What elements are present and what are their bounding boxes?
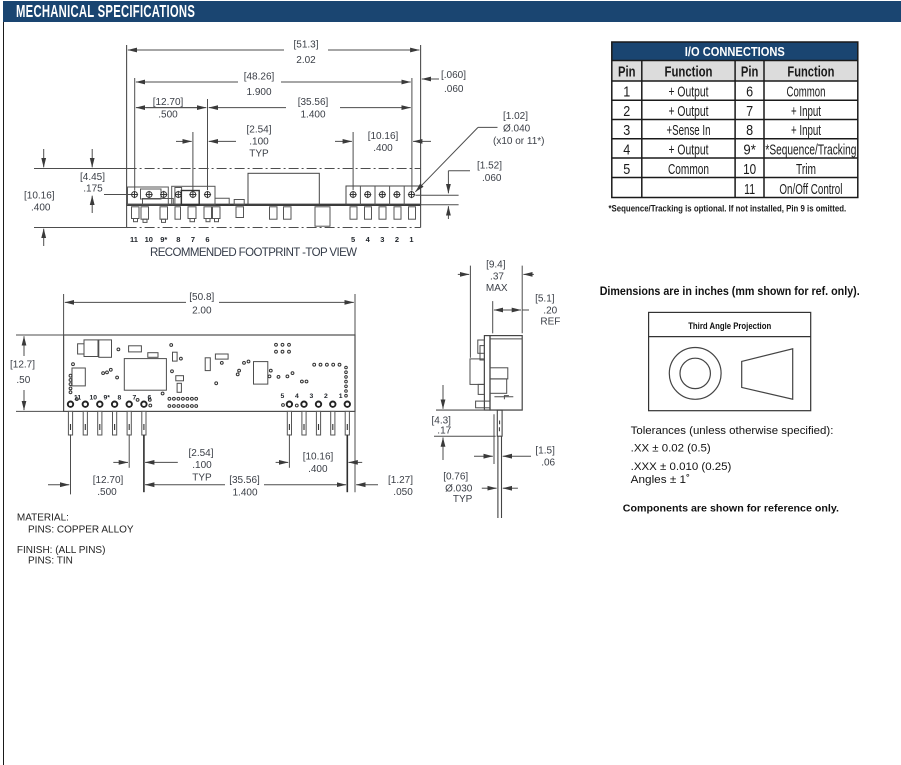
- svg-text:[1.5]: [1.5]: [535, 446, 555, 457]
- svg-text:Pin: Pin: [741, 65, 759, 81]
- svg-text:3: 3: [623, 122, 630, 139]
- table header text: [618, 65, 834, 81]
- svg-text:6: 6: [746, 84, 753, 101]
- svg-text:11: 11: [744, 181, 755, 198]
- connector box D (pins 8-7-6): [172, 186, 215, 205]
- svg-text:FINISH: (ALL PINS): FINISH: (ALL PINS): [17, 545, 106, 556]
- svg-text:On/Off Control: On/Off Control: [779, 181, 842, 198]
- pin number labels top view: [130, 235, 414, 244]
- svg-text:Tolerances (unless otherwise s: Tolerances (unless otherwise specified):: [631, 425, 834, 437]
- svg-text:+ Output: + Output: [669, 103, 710, 120]
- terminal block (pins 5-1): [346, 186, 421, 205]
- svg-text:Angles ± 1˚: Angles ± 1˚: [631, 474, 690, 486]
- lid line: [490, 338, 522, 340]
- svg-text:.500: .500: [97, 487, 117, 498]
- svg-text:[1.27]: [1.27]: [388, 475, 413, 486]
- svg-text:2: 2: [324, 393, 328, 400]
- components on pcb: [72, 340, 268, 392]
- svg-text:7: 7: [191, 235, 195, 244]
- dim [2.54] .100 TYP: [176, 125, 272, 160]
- svg-text:Third Angle Projection: Third Angle Projection: [688, 321, 771, 332]
- dim [10.16] .400 (side): [276, 461, 289, 463]
- svg-text:[2.54]: [2.54]: [188, 448, 213, 459]
- dim [1.5] .06: [493, 414, 495, 464]
- connector box A (pins 11-10-9): [128, 187, 169, 205]
- dim [10.16] .400 (top right): [335, 131, 431, 154]
- svg-text:.37: .37: [490, 272, 504, 283]
- transformer rect center: [248, 173, 319, 205]
- dim [1.27] .050 (side): [356, 484, 378, 486]
- dim [48.26] 1.900: [136, 72, 411, 99]
- terminal divider 1: [359, 186, 361, 205]
- table cells: [623, 84, 856, 198]
- svg-text:REF: REF: [540, 317, 560, 328]
- svg-text:MAX: MAX: [486, 283, 508, 294]
- pin row leader left: [104, 194, 131, 196]
- svg-text:.50: .50: [16, 375, 30, 386]
- svg-text:[10.16]: [10.16]: [368, 131, 399, 142]
- svg-text:MATERIAL:: MATERIAL:: [17, 512, 69, 523]
- svg-text:4: 4: [366, 235, 371, 244]
- svg-text:.060: .060: [482, 173, 502, 184]
- svg-text:+ Input: + Input: [791, 122, 822, 139]
- dim [12.70] .500: [136, 97, 206, 121]
- svg-text:11: 11: [74, 395, 81, 402]
- svg-text:Pin: Pin: [618, 65, 636, 81]
- dot grid center bottom: [168, 397, 171, 400]
- svg-text:4: 4: [623, 141, 630, 158]
- svg-text:+ Input: + Input: [791, 103, 822, 120]
- header bar: [3, 1, 901, 22]
- svg-text:2: 2: [623, 103, 630, 120]
- svg-text:5: 5: [281, 393, 285, 400]
- svg-text:Dimensions are in inches (mm s: Dimensions are in inches (mm shown for r…: [600, 284, 860, 298]
- small tab: [234, 200, 244, 205]
- module outline top edge (dash-dot): [127, 168, 421, 170]
- pcb strip: [484, 336, 490, 410]
- svg-text:.500: .500: [158, 110, 178, 121]
- svg-text:.400: .400: [308, 464, 328, 475]
- svg-text:[35.56]: [35.56]: [229, 475, 260, 486]
- dim [35.56] 1.400: [209, 97, 411, 121]
- left page border: [3, 22, 4, 765]
- svg-text:.06: .06: [541, 458, 555, 469]
- pin row ext right: [416, 194, 459, 196]
- seating plane line: [436, 409, 523, 411]
- svg-text:3: 3: [310, 393, 314, 400]
- svg-text:*Sequence/Tracking is optional: *Sequence/Tracking is optional. If not i…: [609, 204, 847, 214]
- dim [9.4] .37 MAX: [458, 273, 469, 275]
- svg-text:2.00: 2.00: [192, 306, 212, 317]
- ext pin7: [192, 132, 194, 190]
- svg-text:+Sense In: +Sense In: [667, 122, 711, 139]
- dot grid upper: [275, 343, 278, 346]
- ext left dims top line: [34, 168, 127, 170]
- svg-text:[50.8]: [50.8]: [189, 292, 214, 303]
- svg-text:1.400: 1.400: [300, 110, 325, 121]
- side view pin pads (through-hole): [68, 402, 350, 407]
- svg-text:5: 5: [623, 161, 630, 178]
- table title bar: [612, 42, 858, 61]
- ext lines 9.4: [470, 266, 522, 358]
- ext pin6: [207, 99, 209, 190]
- ext lines 50.8: [64, 294, 355, 335]
- table header bg: [612, 61, 858, 82]
- third angle projection box: [649, 312, 811, 410]
- dim [2.54] .100 TYP (side): [113, 461, 128, 463]
- dim [5.1] .20 REF: [492, 301, 494, 333]
- svg-text:TYP: TYP: [249, 149, 269, 160]
- svg-text:(x10 or 11*): (x10 or 11*): [493, 136, 545, 147]
- svg-text:10: 10: [743, 161, 756, 178]
- svg-text:8: 8: [118, 395, 122, 402]
- dim [51.3] 2.02: [128, 40, 420, 67]
- small vias/dots: [69, 343, 347, 407]
- dim [1.52] .060: [448, 161, 502, 220]
- svg-text:[12.70]: [12.70]: [153, 97, 184, 108]
- projection circles: [669, 348, 721, 400]
- svg-text:Ø.030: Ø.030: [445, 483, 473, 494]
- svg-text:7: 7: [133, 395, 137, 402]
- svg-text:+ Output: + Output: [669, 141, 710, 158]
- left side components: [470, 340, 490, 408]
- dim [35.56] 1.400 (side): [145, 484, 158, 486]
- round pin section: [498, 436, 502, 518]
- dots near pins: [136, 399, 139, 402]
- svg-text:Trim: Trim: [796, 161, 816, 178]
- table grid: [612, 42, 858, 198]
- solder pads below pcb line: [132, 207, 416, 226]
- svg-text:.060: .060: [444, 84, 464, 95]
- svg-text:[48.26]: [48.26]: [244, 72, 275, 83]
- svg-text:[0.76]: [0.76]: [443, 472, 468, 483]
- module outline left edge: [126, 45, 128, 228]
- svg-text:[.060]: [.060]: [441, 70, 466, 81]
- svg-text:[10.16]: [10.16]: [303, 452, 334, 463]
- svg-text:2.02: 2.02: [296, 55, 316, 66]
- svg-text:[5.1]: [5.1]: [535, 294, 555, 305]
- dim [0.76] dia .030 TYP: [482, 487, 497, 489]
- svg-text:[4.45]: [4.45]: [80, 172, 105, 183]
- terminal divider 2: [374, 186, 376, 205]
- svg-text:10: 10: [145, 235, 153, 244]
- svg-text:7: 7: [746, 103, 753, 120]
- end view body: [490, 336, 522, 410]
- pin legs: [68, 411, 349, 435]
- svg-text:3: 3: [380, 235, 384, 244]
- svg-text:Components are shown for refer: Components are shown for reference only.: [623, 502, 839, 514]
- svg-text:9*: 9*: [104, 395, 111, 402]
- terminal divider 3: [389, 186, 391, 205]
- svg-text:[35.56]: [35.56]: [298, 97, 329, 108]
- extension lines: [34, 78, 459, 228]
- svg-text:1.400: 1.400: [232, 488, 257, 499]
- svg-text:.XX ± 0.02 (0.5): .XX ± 0.02 (0.5): [631, 443, 711, 455]
- svg-text:6: 6: [205, 235, 209, 244]
- connector box E (pin 7): [181, 191, 199, 205]
- dim [4.3] .17: [434, 435, 496, 437]
- svg-text:1: 1: [409, 235, 413, 244]
- dim [12.7] .50: [16, 335, 64, 411]
- projection cone: [742, 349, 793, 399]
- dim [4.45] .175: [80, 149, 105, 213]
- svg-text:Function: Function: [665, 65, 713, 81]
- left dot column: [69, 374, 72, 377]
- svg-text:4: 4: [295, 393, 299, 400]
- svg-text:1: 1: [623, 84, 630, 101]
- svg-text:I/O CONNECTIONS: I/O CONNECTIONS: [685, 45, 785, 59]
- connector box C lower: [143, 199, 174, 205]
- svg-text:5: 5: [351, 235, 355, 244]
- module outline right edge: [420, 45, 422, 228]
- svg-text:[1.02]: [1.02]: [503, 111, 528, 122]
- module outline bottom edge (dash-dot): [127, 227, 421, 229]
- svg-text:[2.54]: [2.54]: [246, 125, 271, 136]
- svg-text:1.900: 1.900: [246, 87, 271, 98]
- svg-text:PINS: TIN: PINS: TIN: [28, 555, 73, 566]
- svg-text:PINS: COPPER ALLOY: PINS: COPPER ALLOY: [28, 524, 134, 535]
- lower extension lines: [71, 434, 130, 494]
- pcb edge ext right: [421, 204, 459, 206]
- connector box pin8: [175, 188, 182, 205]
- ext pin11: [134, 78, 136, 191]
- svg-text:.400: .400: [31, 203, 51, 214]
- square pin section: [497, 410, 502, 436]
- svg-text:.400: .400: [373, 143, 393, 154]
- ext pin1: [411, 78, 413, 191]
- svg-text:RECOMMENDED FOOTPRINT -TOP VIE: RECOMMENDED FOOTPRINT -TOP VIEW: [150, 247, 357, 259]
- pcb bottom thick line: [127, 204, 421, 206]
- svg-text:[9.4]: [9.4]: [486, 260, 506, 271]
- svg-text:Function: Function: [787, 65, 834, 81]
- svg-text:.100: .100: [192, 460, 212, 471]
- svg-text:Ø.040: Ø.040: [503, 124, 531, 135]
- svg-text:[12.7]: [12.7]: [10, 360, 35, 371]
- svg-text:.20: .20: [543, 306, 557, 317]
- svg-text:.175: .175: [83, 184, 103, 195]
- leg center ticks: [71, 424, 348, 430]
- side body outline: [64, 335, 355, 411]
- svg-text:Common: Common: [668, 161, 709, 178]
- svg-text:10: 10: [90, 395, 98, 402]
- leader [1.02] dia .040: [415, 111, 544, 192]
- ext left dims bottom line: [34, 227, 127, 229]
- deep notch rect: [315, 207, 330, 226]
- dot row right: [313, 363, 316, 366]
- ext pin5: [352, 132, 354, 190]
- side view pin labels: [74, 393, 343, 402]
- svg-text:*Sequence/Tracking: *Sequence/Tracking: [765, 141, 856, 158]
- step line right of box D: [215, 198, 229, 205]
- svg-text:[10.16]: [10.16]: [24, 191, 55, 202]
- svg-text:[12.70]: [12.70]: [93, 475, 124, 486]
- svg-text:8: 8: [746, 122, 753, 139]
- svg-text:.050: .050: [393, 487, 413, 498]
- svg-text:TYP: TYP: [192, 473, 212, 484]
- svg-text:Common: Common: [787, 84, 826, 101]
- dim [10.16] .400 (left): [24, 149, 55, 246]
- svg-text:[1.52]: [1.52]: [477, 161, 502, 172]
- svg-text:+ Output: + Output: [669, 84, 710, 101]
- svg-text:9*: 9*: [743, 141, 756, 158]
- right inner components: [490, 368, 513, 400]
- dim [50.8] 2.00: [65, 301, 186, 303]
- pins 11..6 and 5..1 (circle-cross): [131, 191, 415, 198]
- svg-text:2: 2: [395, 235, 399, 244]
- svg-text:[51.3]: [51.3]: [293, 40, 318, 51]
- pad feet: [134, 219, 138, 222]
- dot column right: [345, 366, 348, 369]
- svg-text:6: 6: [148, 395, 152, 402]
- terminal divider 4: [403, 186, 405, 205]
- svg-text:.100: .100: [249, 137, 269, 148]
- svg-text:11: 11: [130, 235, 138, 244]
- svg-text:9*: 9*: [160, 235, 167, 244]
- svg-text:.17: .17: [437, 425, 451, 436]
- dim [12.70] .500 (side): [48, 484, 69, 486]
- connector box B inner: [141, 189, 162, 199]
- svg-text:TYP: TYP: [453, 494, 473, 505]
- svg-text:8: 8: [176, 235, 180, 244]
- dim [.060] .060: [422, 70, 466, 95]
- svg-text:.XXX ± 0.010 (0.25): .XXX ± 0.010 (0.25): [631, 461, 732, 473]
- svg-text:1: 1: [339, 393, 343, 400]
